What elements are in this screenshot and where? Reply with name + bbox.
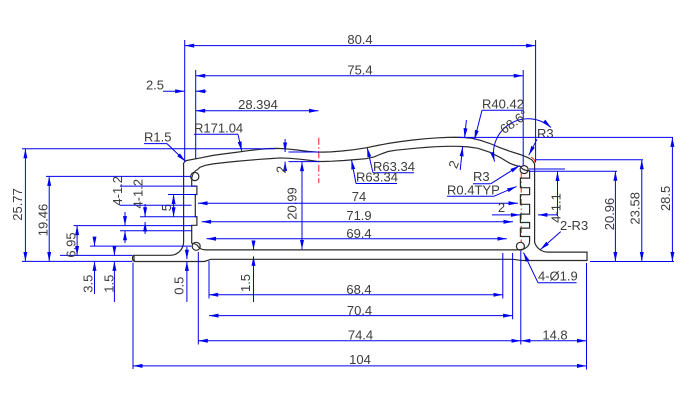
svg-text:4-1.2: 4-1.2 xyxy=(110,176,125,206)
svg-text:23.58: 23.58 xyxy=(628,192,643,225)
svg-text:28.394: 28.394 xyxy=(238,97,278,112)
svg-text:4-1.2: 4-1.2 xyxy=(131,179,146,209)
dimension 28.5 xyxy=(658,137,673,261)
extension line flange top left xyxy=(60,254,132,256)
lid thickness dimension 2 at dip xyxy=(274,139,320,173)
dimension 4-1.1 xyxy=(549,172,564,223)
svg-text:2.5: 2.5 xyxy=(146,78,164,93)
dimension 23.58 xyxy=(628,160,643,262)
svg-text:14.8: 14.8 xyxy=(542,328,567,343)
svg-text:2: 2 xyxy=(445,158,462,170)
svg-text:74.4: 74.4 xyxy=(348,328,373,343)
dimension 20.99 xyxy=(285,162,302,250)
tooth depth dimension 2 right xyxy=(492,200,558,215)
dimension 68.4 xyxy=(209,282,503,297)
leader 4-dia1.9 xyxy=(524,253,578,284)
leader 2-R3 xyxy=(541,218,589,250)
svg-text:R1.5: R1.5 xyxy=(144,130,171,145)
extension line mid left xyxy=(120,204,192,206)
leader R63.34 upper xyxy=(367,148,415,174)
svg-text:2-R3: 2-R3 xyxy=(560,218,588,233)
extension line bottom left xyxy=(22,260,132,262)
svg-text:74: 74 xyxy=(352,189,366,204)
extension line 70.4 right xyxy=(512,253,514,319)
dimension 0.5 step xyxy=(172,247,187,302)
svg-text:R63.34: R63.34 xyxy=(356,170,398,185)
svg-text:75.4: 75.4 xyxy=(347,63,372,78)
slanted lid thickness dimension 2 xyxy=(445,120,466,170)
dimension 69.4 xyxy=(207,226,507,241)
svg-text:4-Ø1.9: 4-Ø1.9 xyxy=(538,269,578,284)
red serration pitch line right wall xyxy=(520,172,522,242)
extension line 20.96 top xyxy=(529,170,617,172)
leader R3 top right xyxy=(529,126,554,155)
extension line 68.4 left xyxy=(208,261,210,299)
extension line 23.58 top xyxy=(536,159,643,161)
svg-text:1.5: 1.5 xyxy=(101,275,116,293)
extension line 25.77 top xyxy=(22,148,275,150)
extension line slot bottom left xyxy=(140,216,197,218)
dimension 104 xyxy=(133,352,587,367)
dimension 4-1.2 second xyxy=(131,179,146,234)
dimension 75.4 xyxy=(196,63,524,78)
dimension 25.77 xyxy=(10,149,25,262)
dimension 80.4 xyxy=(185,32,536,47)
dimension 6.95 xyxy=(64,226,79,258)
screw boss bottom right xyxy=(516,242,524,250)
svg-text:28.5: 28.5 xyxy=(658,186,673,211)
dimension 71.9 xyxy=(202,208,513,223)
svg-text:3.5: 3.5 xyxy=(81,275,96,293)
dimension 1.5 panel xyxy=(238,242,254,302)
dimension 5 slot xyxy=(159,195,174,217)
svg-text:R171.04: R171.04 xyxy=(194,121,243,136)
svg-text:80.4: 80.4 xyxy=(347,32,372,47)
leader R40.42 xyxy=(475,97,524,140)
extension line 4-1.2 lower xyxy=(120,230,192,232)
profile outer outline xyxy=(134,137,587,261)
extension line 74.4 right xyxy=(520,251,522,345)
svg-text:70.4: 70.4 xyxy=(347,303,372,318)
svg-text:R0.4TYP: R0.4TYP xyxy=(447,183,500,198)
dimension 1.5 flange xyxy=(101,247,116,302)
leader R1.5 xyxy=(144,130,185,162)
profile inner cavity outline xyxy=(192,146,530,250)
profile left flange end cap xyxy=(133,255,136,261)
red mark corner R3 top right xyxy=(531,157,535,163)
leader R3 middle xyxy=(473,166,520,184)
leader R171.04 xyxy=(194,121,243,152)
svg-text:104: 104 xyxy=(349,352,371,367)
extension line tooth1 top left xyxy=(120,185,196,187)
extension line 3.5 top xyxy=(90,245,192,247)
dimension 3.5 xyxy=(81,238,96,294)
extension line 104 left xyxy=(132,263,134,370)
screw boss top right xyxy=(520,166,528,174)
svg-text:68.4: 68.4 xyxy=(346,282,371,297)
svg-text:6.95: 6.95 xyxy=(64,232,79,257)
svg-text:20.96: 20.96 xyxy=(602,198,617,231)
dimension 20.96 xyxy=(602,171,617,261)
svg-text:2: 2 xyxy=(498,200,505,215)
extension line 4-1.1 top xyxy=(529,168,565,170)
dimension 70.4 xyxy=(209,303,513,318)
extension line slot top left xyxy=(168,194,197,196)
dimension 28.394 xyxy=(196,97,319,112)
svg-text:69.4: 69.4 xyxy=(346,226,371,241)
dimension 4-1.2 first xyxy=(110,176,125,243)
dimension 14.8 xyxy=(521,328,587,343)
extension line 19.46 top xyxy=(46,175,191,177)
extension line left of 80.4 xyxy=(184,40,186,161)
svg-text:2: 2 xyxy=(274,166,289,173)
leader R0.4TYP xyxy=(447,183,517,198)
svg-text:25.77: 25.77 xyxy=(10,188,25,221)
extension line 68.4 right xyxy=(502,253,504,299)
svg-text:R3: R3 xyxy=(537,126,554,141)
extension line 104 right xyxy=(586,263,588,370)
screw boss top left xyxy=(191,172,199,180)
dimension 74 xyxy=(198,189,518,204)
svg-text:19.46: 19.46 xyxy=(36,204,51,237)
extension line 6.95 top xyxy=(74,225,193,227)
svg-text:0.5: 0.5 xyxy=(172,277,187,295)
screw boss bottom left xyxy=(192,242,200,250)
svg-text:1.5: 1.5 xyxy=(238,274,253,292)
extension line right bottoms xyxy=(590,261,674,263)
red centerline at lid dip xyxy=(318,138,320,183)
extension line right of 75.4 xyxy=(522,70,524,166)
leader R63.34 lower xyxy=(352,160,398,185)
extension line right of 80.4 xyxy=(535,40,537,163)
extension line left of 75.4 xyxy=(195,70,197,159)
extension line 74.4 left xyxy=(197,252,199,345)
dimension 19.46 xyxy=(36,176,51,261)
dimension 74.4 xyxy=(198,328,521,343)
svg-text:71.9: 71.9 xyxy=(346,208,371,223)
extension line 28.5 top xyxy=(458,136,673,138)
dimension 2.5 xyxy=(146,78,207,93)
angle dimension 68.6 deg xyxy=(493,107,551,162)
